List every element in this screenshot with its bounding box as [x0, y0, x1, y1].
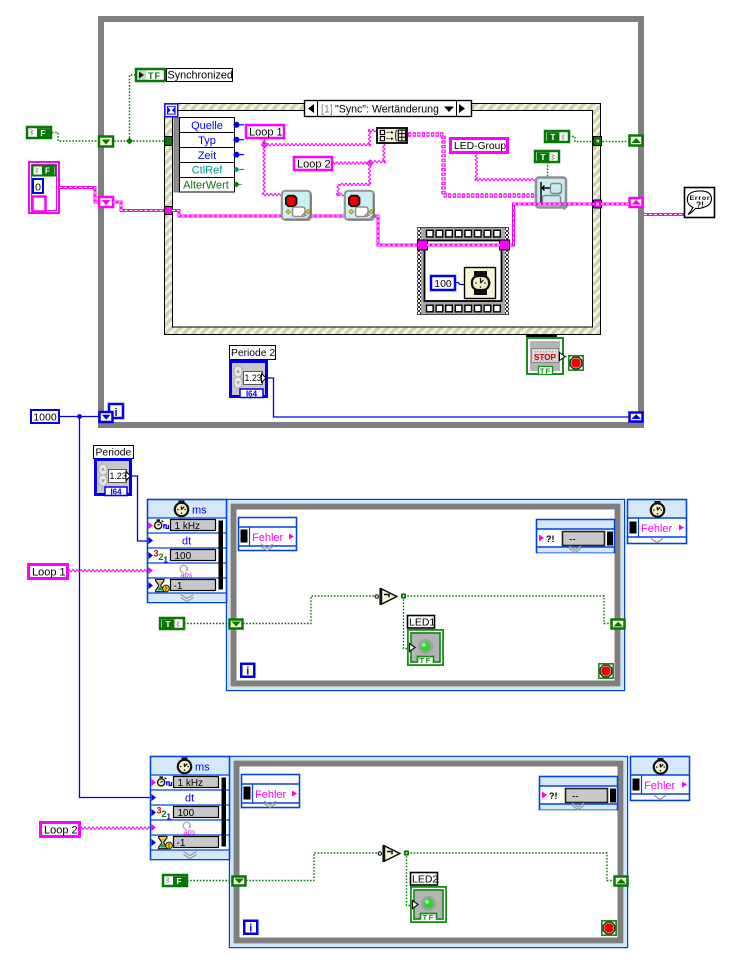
- wire: NOT output to right SR (dotted green): [401, 596, 611, 624]
- svg-text:STOP: STOP: [534, 353, 556, 362]
- shift register left blue (period): [100, 412, 113, 422]
- svg-text:TF: TF: [540, 367, 551, 376]
- wire: left SR to NOT gate (dotted green): [243, 596, 376, 624]
- send notification subVI: [536, 178, 569, 210]
- svg-text:i: i: [114, 407, 117, 419]
- wire: Loop 2 string (wavy) to build-cluster-array bottom input and obtain-notifier 2: [332, 142, 386, 196]
- event structure border (hatched): [165, 104, 601, 335]
- string constant Loop 1: [246, 125, 284, 139]
- svg-text:Loop 2: Loop 2: [44, 824, 78, 836]
- string constant Loop 2: [294, 157, 332, 171]
- svg-text:"Sync": Wertänderung: "Sync": Wertänderung: [335, 104, 439, 116]
- sequence tunnel left (magenta): [418, 240, 428, 250]
- wire: sequence out up to send notifier error out to tunnel (magenta dashed): [509, 202, 594, 246]
- svg-text:1.23: 1.23: [110, 471, 127, 481]
- Synchronized TF indicator terminal: [136, 69, 165, 81]
- label Synchronized: [167, 69, 233, 82]
- wire: Loop 2 (wavy) to timed loop 2 name input: [80, 827, 152, 829]
- svg-text:F: F: [176, 876, 181, 886]
- svg-text:T: T: [550, 132, 556, 142]
- boolean constant T (upper, to green tunnel): [545, 131, 569, 142]
- svg-text:I64: I64: [246, 389, 258, 398]
- svg-text:?!: ?!: [696, 200, 704, 210]
- event data node selector bar: [174, 118, 179, 192]
- wire: error cluster inside sequence: [427, 244, 500, 247]
- svg-text:100: 100: [434, 278, 452, 290]
- error handler subVI (Error?!): [685, 188, 715, 218]
- timed loop 2 iteration terminal: [244, 921, 257, 935]
- svg-text:F: F: [40, 128, 45, 138]
- while loop iteration terminal i: [109, 404, 123, 419]
- svg-text:Periode 2: Periode 2: [231, 348, 275, 359]
- svg-text:TF: TF: [148, 71, 161, 81]
- timed loop 1 conditional terminal: [599, 664, 613, 678]
- LED1 boolean indicator terminal: [408, 630, 443, 665]
- svg-text:CtlRef: CtlRef: [192, 165, 224, 177]
- Periode 2 numeric control: [231, 362, 267, 399]
- svg-text:Loop 1: Loop 1: [249, 127, 283, 139]
- wire: NOT output to right SR (dotted green, loop 2): [404, 853, 614, 881]
- timed loop 1 right data node (?!): [537, 520, 615, 553]
- LED2 label: [411, 873, 439, 886]
- Periode numeric control: [96, 460, 131, 497]
- wait (ms) function icon (wristwatch): [465, 268, 496, 299]
- timed loop 2 right data node (?!): [540, 777, 618, 810]
- wire: T constant to green tunnel and right SR (dotted green): [569, 137, 629, 142]
- timed loop 2 output node: [631, 757, 690, 801]
- wire: while loop to error handler (magenta dashed): [644, 213, 684, 216]
- wire: NOT output branch down to LED2: [404, 850, 412, 905]
- while loop (outer) border: [101, 19, 641, 425]
- obtain notifier subVI 1: [282, 191, 313, 222]
- svg-text:I64: I64: [110, 487, 122, 496]
- string constant LED-Group: [451, 139, 508, 153]
- sequence tunnel right (magenta): [500, 240, 510, 250]
- wire: event tunnel to right magenta SR: [601, 203, 629, 206]
- wire: 1000 to blue shift register: [59, 414, 99, 419]
- svg-text:AlterWert: AlterWert: [183, 180, 229, 192]
- svg-text:Synchronized: Synchronized: [168, 70, 233, 82]
- event tunnel magenta with dot (right border): [594, 200, 602, 208]
- NOT gate (timed loop 2): [378, 845, 400, 862]
- timed loop 1 frame: [227, 500, 625, 691]
- flat sequence structure (film strip frame): [418, 228, 509, 315]
- stop button label line: [526, 335, 557, 338]
- wire: left SR to NOT gate (dotted green, loop 2): [246, 853, 379, 881]
- timed loop 2 conditional terminal: [602, 921, 616, 935]
- timed loop 1 left shift register (green down): [230, 620, 243, 629]
- svg-text:LED1: LED1: [409, 617, 435, 629]
- wire: Periode 2 to right blue shift register: [267, 378, 629, 417]
- event data node (Quelle/Typ/Zeit/CtlRef/AlterWert): [180, 118, 235, 193]
- shift register left magenta (error cluster): [99, 197, 113, 207]
- wire: green from SR to junction to event tunnel (dotted green): [114, 140, 164, 142]
- wire: magenta SR to event structure tunnel: [113, 202, 165, 211]
- timed loop 2 right shift register (green up): [615, 877, 628, 886]
- event data node terminals: [234, 122, 245, 188]
- event structure timeout icon (hourglass): [164, 103, 179, 118]
- timed loop 1 input node: [148, 500, 227, 603]
- svg-text:Typ: Typ: [198, 135, 216, 147]
- Periode 2 label: [230, 346, 276, 360]
- shift register right green: [630, 136, 643, 146]
- LED2 boolean indicator terminal: [411, 887, 446, 922]
- wire: T constant down to send notifier (dotted green): [547, 162, 549, 177]
- boolean constant T (lower, to send notifier): [535, 151, 559, 162]
- event tunnel green (left border): [165, 137, 173, 146]
- wire: LED-Group string (wavy) to send notification node: [475, 153, 535, 181]
- timed loop 2 input node: [151, 757, 230, 860]
- svg-text:T: T: [165, 619, 171, 629]
- timed loop 2 left shift register (green down): [233, 877, 246, 886]
- wire: F constant to timed loop 2 left SR (dotted green): [187, 880, 231, 882]
- event tunnel green with dot (right border): [594, 137, 602, 146]
- svg-text:Loop 1: Loop 1: [32, 566, 66, 578]
- svg-text:[1]: [1]: [321, 104, 333, 116]
- wire: cluster array (chain) to send notification node: [408, 135, 536, 196]
- string constant Loop 2 (lower): [41, 823, 80, 837]
- timed loop 1 right shift register (green up): [612, 620, 625, 629]
- build cluster array node: [377, 128, 407, 143]
- svg-text:Periode: Periode: [96, 448, 132, 459]
- svg-text:1.23: 1.23: [245, 373, 262, 383]
- node junction (magenta diamond, Loop 2 wire): [367, 160, 373, 166]
- wire: error cluster through obtain notifiers (magenta dashed): [172, 211, 418, 246]
- Periode label: [94, 446, 134, 459]
- node junction (green diamond): [126, 138, 133, 145]
- event tunnel magenta (left border): [165, 207, 173, 215]
- wire: Periode to timed loop 1 dt input: [131, 476, 147, 541]
- event structure selector label: [305, 101, 472, 117]
- svg-text:T: T: [540, 152, 546, 162]
- timed loop 1 output node: [628, 500, 687, 544]
- shift register right magenta: [630, 198, 643, 207]
- timed loop 1 left data node (Fehler): [239, 518, 297, 551]
- wire: Loop 1 string (wavy) to build-cluster-array and obtain-notifier 1: [262, 130, 376, 196]
- string constant Loop 1 (lower): [29, 565, 68, 579]
- wire: error cluster to left magenta shift register: [59, 188, 99, 203]
- timed loop 2 left data node (Fehler): [242, 775, 300, 808]
- timed loop 2 frame: [230, 757, 628, 948]
- svg-text:Quelle: Quelle: [191, 120, 223, 132]
- LED1 label: [408, 616, 436, 629]
- shift register right blue: [630, 413, 643, 422]
- boolean constant T (timed loop 1): [160, 618, 184, 629]
- svg-text:LED-Group: LED-Group: [454, 141, 506, 152]
- NOT gate (timed loop 1): [375, 588, 397, 605]
- node junction (magenta diamond, Loop 1 wire): [262, 142, 268, 148]
- wire: stop to conditional terminal (dotted): [565, 357, 569, 363]
- constant 100 (wait time): [431, 276, 455, 290]
- svg-text:Zeit: Zeit: [198, 150, 216, 162]
- svg-text:F: F: [45, 167, 50, 176]
- wire: F constant to left green shift register (dotted green): [52, 133, 98, 142]
- wire: green junction up to Synchronized indicator: [130, 75, 136, 141]
- constant 1000: [31, 410, 59, 424]
- shift register left green (synchronized flag): [99, 137, 113, 147]
- boolean constant F (top left): [27, 127, 51, 138]
- wire: 100 to wait ms: [455, 283, 464, 285]
- wire: T constant to timed loop 1 left SR (dotted green): [184, 623, 228, 625]
- svg-text:Loop 2: Loop 2: [297, 159, 331, 171]
- svg-text:0: 0: [35, 182, 41, 194]
- svg-text:LED2: LED2: [412, 874, 438, 886]
- timed loop 1 iteration terminal: [241, 664, 254, 678]
- boolean constant F (timed loop 2): [163, 875, 187, 886]
- wire: Loop 1 (wavy) to timed loop 1 name input: [68, 570, 148, 572]
- error cluster constant (status/code/source): [29, 162, 59, 213]
- stop button terminal: [527, 338, 565, 376]
- wire: NOT output branch down to LED1: [401, 593, 409, 648]
- svg-text:1000: 1000: [33, 412, 57, 424]
- wire: 1000 down to timed loop 2 dt input: [80, 417, 151, 798]
- while loop conditional terminal (stop sign): [569, 356, 583, 370]
- obtain notifier subVI 2: [345, 191, 376, 222]
